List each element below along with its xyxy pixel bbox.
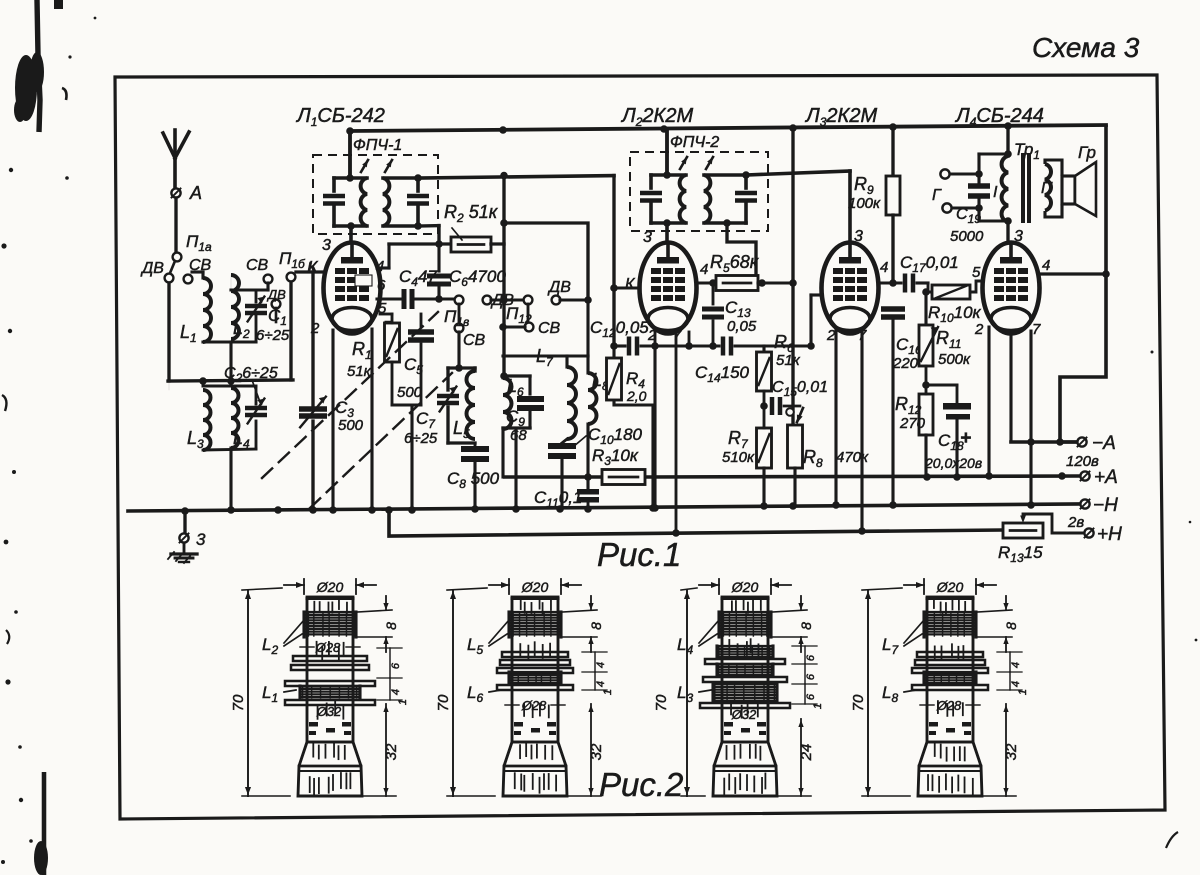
svg-text:510к: 510к [722, 449, 755, 466]
svg-text:8: 8 [1003, 622, 1019, 630]
svg-text:4: 4 [1010, 662, 1022, 668]
svg-text:8: 8 [383, 622, 399, 630]
svg-text:СВ: СВ [538, 320, 561, 337]
svg-text:C447: C447 [399, 267, 437, 289]
svg-text:2: 2 [974, 321, 984, 338]
svg-text:8: 8 [588, 622, 604, 630]
svg-text:Г: Г [932, 187, 942, 204]
svg-text:+А: +А [1094, 467, 1118, 488]
svg-text:4: 4 [595, 681, 607, 687]
svg-text:4: 4 [880, 259, 888, 276]
svg-text:К: К [625, 276, 636, 293]
svg-text:+: + [960, 428, 971, 449]
svg-text:1: 1 [1017, 689, 1029, 695]
svg-text:6÷25: 6÷25 [404, 430, 438, 447]
svg-text:70: 70 [230, 694, 247, 711]
svg-text:СВ: СВ [246, 257, 269, 274]
svg-text:Ø32: Ø32 [731, 707, 757, 722]
svg-text:Л4СБ-244: Л4СБ-244 [954, 105, 1044, 129]
svg-text:C10180: C10180 [588, 425, 643, 447]
svg-text:51к: 51к [776, 352, 801, 369]
svg-text:1: 1 [602, 689, 614, 695]
svg-text:Л1СБ-242: Л1СБ-242 [295, 105, 385, 129]
svg-text:R1010к: R1010к [928, 303, 982, 325]
svg-text:+Н: +Н [1097, 524, 1122, 545]
svg-text:А: А [189, 183, 202, 203]
svg-text:8: 8 [798, 622, 814, 630]
svg-text:C120,05: C120,05 [590, 318, 649, 340]
svg-text:C14150: C14150 [695, 363, 750, 385]
svg-text:C8 500: C8 500 [447, 469, 500, 491]
svg-text:R568к: R568к [710, 252, 760, 275]
svg-text:5000: 5000 [950, 228, 984, 245]
svg-text:К: К [307, 260, 318, 277]
svg-text:4: 4 [1010, 681, 1022, 687]
svg-text:32: 32 [588, 743, 605, 760]
svg-text:2,0: 2,0 [626, 388, 647, 404]
svg-text:R2 51к: R2 51к [444, 202, 499, 225]
svg-text:ДВ: ДВ [547, 279, 571, 296]
svg-text:Ø28: Ø28 [936, 698, 962, 713]
svg-text:2в: 2в [1067, 514, 1084, 531]
svg-text:0,05: 0,05 [727, 318, 757, 335]
svg-text:68: 68 [510, 427, 527, 444]
svg-text:3: 3 [643, 229, 652, 246]
svg-text:2: 2 [310, 320, 320, 337]
svg-text:Ø20: Ø20 [521, 579, 549, 595]
svg-text:Л22К2М: Л22К2М [620, 105, 693, 129]
svg-text:1: 1 [397, 699, 409, 705]
svg-text:C170,01: C170,01 [900, 253, 959, 275]
svg-text:6: 6 [390, 662, 402, 669]
svg-text:7: 7 [673, 327, 682, 344]
svg-text:ФПЧ-2: ФПЧ-2 [670, 134, 719, 151]
svg-text:Гр: Гр [1078, 143, 1096, 162]
svg-text:ДВ: ДВ [140, 260, 164, 277]
svg-text:7: 7 [1032, 321, 1041, 338]
svg-text:70: 70 [850, 694, 867, 711]
svg-text:3: 3 [196, 530, 206, 549]
svg-text:Ø32: Ø32 [316, 704, 342, 719]
svg-text:3: 3 [854, 228, 863, 245]
svg-text:6: 6 [805, 654, 817, 661]
svg-text:500к: 500к [938, 351, 971, 368]
svg-text:4: 4 [390, 689, 402, 695]
svg-text:Ø20: Ø20 [316, 579, 344, 595]
svg-text:270: 270 [899, 415, 926, 432]
svg-text:−Н: −Н [1093, 495, 1118, 516]
svg-text:6: 6 [805, 693, 817, 700]
svg-text:5: 5 [972, 264, 981, 281]
svg-text:Ø20: Ø20 [731, 579, 759, 595]
svg-text:4: 4 [700, 261, 708, 278]
svg-text:32: 32 [383, 743, 400, 760]
svg-text:1: 1 [812, 703, 824, 709]
svg-text:ДВ: ДВ [266, 287, 286, 302]
svg-text:4: 4 [1042, 257, 1050, 274]
svg-text:СВ: СВ [463, 332, 486, 349]
svg-text:Ø20: Ø20 [936, 579, 964, 595]
svg-text:C64700: C64700 [449, 267, 506, 289]
svg-text:I: I [993, 184, 998, 201]
svg-text:Ø28: Ø28 [315, 640, 341, 655]
svg-text:Схема 3: Схема 3 [1032, 32, 1140, 63]
svg-text:20,0х20в: 20,0х20в [924, 455, 982, 471]
svg-text:470к: 470к [836, 449, 869, 466]
svg-text:Рис.2: Рис.2 [599, 766, 683, 803]
svg-text:6: 6 [805, 673, 817, 680]
svg-text:4: 4 [595, 662, 607, 668]
svg-text:70: 70 [435, 694, 452, 711]
svg-text:70: 70 [653, 694, 670, 711]
svg-text:500: 500 [397, 384, 423, 401]
svg-text:3: 3 [1014, 228, 1023, 245]
svg-text:6: 6 [377, 277, 386, 294]
svg-text:−А: −А [1092, 433, 1116, 454]
svg-text:500: 500 [338, 417, 364, 434]
svg-text:R310к: R310к [592, 446, 639, 468]
svg-text:6÷25: 6÷25 [256, 327, 290, 344]
svg-text:ФПЧ-1: ФПЧ-1 [353, 137, 402, 154]
svg-text:100к: 100к [848, 195, 881, 212]
svg-text:Л32К2М: Л32К2М [804, 105, 877, 129]
svg-text:Рис.1: Рис.1 [597, 536, 681, 573]
svg-text:220: 220 [892, 355, 919, 372]
svg-text:П: П [1041, 180, 1053, 197]
svg-text:Ø28: Ø28 [521, 698, 547, 713]
svg-text:24: 24 [798, 744, 815, 762]
svg-text:32: 32 [1003, 743, 1020, 760]
svg-text:3: 3 [322, 237, 331, 254]
